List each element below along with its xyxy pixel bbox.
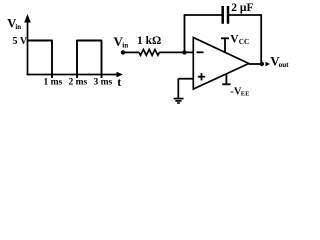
svg-text:5 V: 5 V: [13, 36, 28, 47]
svg-text:2 ms: 2 ms: [69, 78, 88, 88]
svg-text:3 ms: 3 ms: [94, 78, 113, 88]
svg-text:EE: EE: [241, 91, 250, 98]
svg-text:CC: CC: [239, 38, 249, 46]
svg-text:in: in: [122, 42, 128, 50]
svg-text:1 ms: 1 ms: [44, 78, 63, 88]
svg-text:1 kΩ: 1 kΩ: [137, 35, 161, 47]
svg-text:out: out: [279, 61, 290, 69]
svg-text:in: in: [15, 24, 21, 31]
svg-text:t: t: [117, 75, 121, 89]
svg-text:2 μF: 2 μF: [231, 2, 253, 14]
